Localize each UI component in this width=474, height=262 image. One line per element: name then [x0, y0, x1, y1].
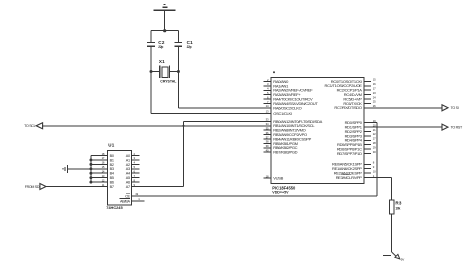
svg-text:RE3/MCLR/VPP: RE3/MCLR/VPP — [336, 175, 363, 180]
svg-text:RB7/KBI3/PGD: RB7/KBI3/PGD — [273, 150, 297, 155]
svg-text:B2: B2 — [110, 163, 114, 167]
svg-text:A7: A7 — [126, 185, 130, 189]
svg-text:A6: A6 — [126, 180, 130, 184]
svg-text:FROM SD: FROM SD — [25, 185, 40, 189]
svg-text:22p: 22p — [158, 45, 163, 49]
svg-text:AB/BA: AB/BA — [120, 200, 131, 204]
svg-text:OSC1/CLKI: OSC1/CLKI — [273, 111, 292, 116]
svg-text:B6: B6 — [110, 180, 114, 184]
svg-text:VUSB: VUSB — [273, 175, 283, 180]
svg-text:B0: B0 — [110, 154, 114, 158]
svg-text:TO SI: TO SI — [451, 106, 459, 110]
svg-text:A1: A1 — [126, 158, 130, 162]
svg-text:TO RST: TO RST — [451, 125, 463, 129]
svg-text:RA6/OSC2/CLKO: RA6/OSC2/CLKO — [273, 105, 301, 110]
svg-text:22p: 22p — [187, 45, 192, 49]
svg-text:B7: B7 — [110, 185, 114, 189]
svg-text:PIC18F4550: PIC18F4550 — [272, 185, 296, 190]
svg-text:5V: 5V — [401, 257, 404, 261]
svg-text:RC7/RX/DT/SDO: RC7/RX/DT/SDO — [334, 105, 361, 110]
svg-text:A0: A0 — [126, 154, 130, 158]
svg-text:B4: B4 — [110, 172, 114, 176]
svg-text:TO SCL: TO SCL — [24, 124, 35, 128]
svg-text:U1: U1 — [108, 143, 114, 148]
svg-text:10k: 10k — [395, 206, 400, 210]
svg-text:A2: A2 — [126, 163, 130, 167]
svg-text:RD7/SPP7/P1D: RD7/SPP7/P1D — [337, 151, 362, 156]
svg-text:A5: A5 — [126, 176, 130, 180]
svg-text:B5: B5 — [110, 176, 114, 180]
svg-text:A4: A4 — [126, 172, 130, 176]
svg-text:X1: X1 — [159, 59, 165, 64]
svg-text:VDD=+5V: VDD=+5V — [272, 191, 289, 195]
svg-text:CRYSTAL: CRYSTAL — [160, 79, 177, 83]
svg-text:A3: A3 — [126, 167, 130, 171]
svg-text:R3: R3 — [395, 201, 402, 206]
svg-text:B1: B1 — [110, 158, 114, 162]
svg-text:B3: B3 — [110, 167, 114, 171]
svg-text:74HC245: 74HC245 — [106, 205, 123, 210]
